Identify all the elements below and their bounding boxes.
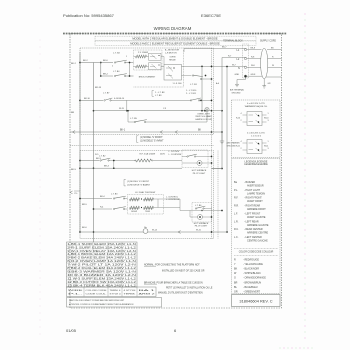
section separator (70, 145, 214, 147)
svg-text:L.T. B4: L.T. B4 (113, 71, 120, 73)
svg-text:01/05: 01/05 (66, 328, 77, 333)
svg-text:1 - L.T. B8: 1 - L.T. B8 (155, 92, 165, 94)
L1 feeder (184, 48, 246, 50)
cord-to-edge leads (267, 49, 282, 51)
svg-text:PETIT LE PAVILLET D INSTALLATI: PETIT LE PAVILLET D INSTALLATION OU LE (166, 287, 213, 290)
svg-text:2 R-1 SURF ELEM 15A 240V L1-L2: 2 R-1 SURF ELEM 15A 240V L1-L2 (67, 246, 137, 249)
pilot light 1 (197, 161, 202, 166)
svg-text:L. CONTROL: L. CONTROL (166, 196, 179, 198)
svg-text:LAMPE TEMOIN: LAMPE TEMOIN (247, 192, 265, 195)
bus BK (79, 52, 81, 232)
svg-text:NORMAL: FOR CONNECTING THE PLA: NORMAL: FOR CONNECTING THE PLATFORM NOT (144, 264, 200, 267)
link between rows (129, 63, 131, 77)
terminal N (244, 66, 246, 68)
svg-text:- BROWN/BRUN: - BROWN/BRUN (243, 281, 261, 284)
svg-text:P.L.: P.L. (68, 293, 84, 295)
cutoff switch (187, 156, 188, 157)
svg-text:WARMER/PLAQUE CH.: WARMER/PLAQUE CH. (245, 105, 268, 108)
svg-text:P.L.: P.L. (75, 193, 79, 195)
svg-text:TERMINAL BLOCK: TERMINAL BLOCK (223, 39, 243, 42)
hot surface box 2 (192, 203, 212, 223)
bus R (93, 63, 95, 243)
svg-text:A/B CHASSIS: A/B CHASSIS (227, 142, 241, 145)
warmer relay 2 (247, 140, 262, 154)
oven lamp (205, 107, 209, 111)
svg-text:5 BK-2 BAKE ELEM 14A 240V L1-L: 5 BK-2 BAKE ELEM 14A 240V L1-L2 (67, 257, 137, 260)
svg-text:L.T. B7: L.T. B7 (103, 93, 110, 95)
terminal GND (244, 75, 246, 77)
svg-text:9 BK-3 WARMER 5A 120V L1-N: 9 BK-3 WARMER 5A 120V L1-N (67, 271, 136, 274)
surface feed wires (80, 160, 99, 162)
svg-text:L.F. DUAL 750/2200W: L.F. DUAL 750/2200W (135, 191, 155, 194)
caution box (67, 298, 162, 308)
svg-text:GR: GR (234, 291, 238, 294)
second dashed edge lower (217, 151, 219, 239)
svg-text:1: 1 (268, 113, 269, 115)
svg-text:R.F. 4.5A 1200W: R.F. 4.5A 1200W (140, 152, 156, 155)
svg-text:AVANT GAUCHE: AVANT GAUCHE (247, 216, 266, 219)
feeder to lower section (226, 67, 228, 233)
terminal L1 (244, 48, 246, 50)
svg-text:RELAY: RELAY (169, 59, 176, 62)
svg-text:PILOT LIGHT: PILOT LIGHT (193, 173, 206, 175)
svg-text:BK-2: BK-2 (71, 63, 77, 65)
svg-text:R: R (234, 258, 236, 261)
junction dots (79, 62, 81, 64)
terminal L2 (244, 57, 246, 59)
svg-text:ARRIERE DROIT: ARRIERE DROIT (247, 208, 266, 211)
hot surface box 1 (182, 150, 208, 168)
svg-text:R.C.: R.C. (234, 228, 239, 231)
dual switch feeds (80, 198, 112, 200)
svg-text:W-14: W-14 (152, 229, 158, 231)
svg-text:BK-5: BK-5 (71, 169, 77, 171)
svg-text:1 BK-1 SURF ELEM 15A 120V L1-N: 1 BK-1 SURF ELEM 15A 120V L1-N (67, 243, 136, 246)
svg-text:750W: 750W (145, 211, 150, 213)
svg-text:(1) MODELE 'S' AVANT: (1) MODELE 'S' AVANT (127, 183, 151, 186)
terminal block outline (243, 44, 249, 78)
model line 1 (95, 36, 256, 40)
pilot light 2 (198, 215, 203, 220)
svg-text:L.T. B6: L.T. B6 (195, 205, 202, 207)
oven light switch (134, 121, 135, 122)
svg-text:LEGENDE/LEGENDE: LEGENDE/LEGENDE (244, 163, 268, 166)
svg-text:BA 1: BA 1 (139, 289, 158, 292)
svg-text:E36EC75E: E36EC75E (201, 13, 221, 18)
scan dots (decorative) (40, 40, 41, 41)
oven relay box (164, 65, 182, 81)
svg-text:1450W: 1450W (131, 211, 137, 213)
row y100 switch (80, 99, 103, 101)
svg-text:N: N (238, 67, 240, 70)
broil element E2 (136, 65, 147, 68)
svg-text:BK: BK (234, 268, 238, 271)
svg-text:ARRIERE CENTRE: ARRIERE CENTRE (247, 232, 269, 235)
part number box (232, 295, 281, 307)
svg-text:7 W-2 PILOT LT 1A 120V L2-N: 7 W-2 PILOT LT 1A 120V L2-N (67, 264, 136, 267)
svg-text:4-10 BK-10: 4-10 BK-10 (114, 98, 125, 100)
svg-text:1 - L.T. B10: 1 - L.T. B10 (186, 90, 197, 92)
dual switch a (113, 198, 114, 199)
svg-text:GND: GND (235, 74, 240, 76)
svg-text:BK-1: BK-1 (120, 130, 126, 132)
svg-text:4 x 40 120V 2.4 TD: 4 x 40 120V 2.4 TD (247, 103, 265, 105)
L2 feeder (222, 57, 246, 59)
svg-text:L.F.: L.F. (234, 212, 238, 215)
model line 2 (95, 41, 256, 45)
svg-text:COLOR CODE: COLOR CODE (86, 290, 108, 292)
svg-text:CODE COUL.: CODE COUL. (86, 293, 108, 295)
dual coil A2 (144, 198, 154, 201)
svg-text:MODEL WITH 2 REGULAR ELEMENT &: MODEL WITH 2 REGULAR ELEMENT & DOUBLE EL… (132, 37, 218, 41)
svg-text:BROIL ELEMENT: BROIL ELEMENT (139, 77, 156, 79)
outer dashed frame (70, 34, 282, 309)
table footer strip (67, 287, 157, 297)
bottom wire (80, 231, 212, 233)
svg-text:8 BR-2 DUAL ELEM 11A 240V L1-L: 8 BR-2 DUAL ELEM 11A 240V L1-L2 (67, 267, 137, 270)
svg-text:L-R MOTOR: L-R MOTOR (165, 53, 177, 55)
svg-text:3 W-1 OVEN RELAY 10A 120V L2-N: 3 W-1 OVEN RELAY 10A 120V L2-N (67, 250, 136, 253)
svg-text:CENTRE GAUCHE: CENTRE GAUCHE (247, 239, 268, 242)
inner right dashed edge (211, 48, 213, 239)
svg-text:W: W (272, 65, 274, 67)
svg-text:BR-18: BR-18 (95, 87, 102, 89)
element link to relay (147, 56, 149, 58)
upper schematic enclosure (80, 48, 214, 135)
svg-text:L.R.: L.R. (234, 220, 239, 223)
svg-text:11 W-3 SURF ELEM 13A 240V L1-L: 11 W-3 SURF ELEM 13A 240V L1-L2 (67, 277, 137, 280)
svg-text:BRANCHE: POUR BRANCHER LA TABL: BRANCHE: POUR BRANCHER LA TABLE DE CUISS… (144, 281, 203, 284)
svg-text:L.T. B3: L.T. B3 (111, 194, 118, 196)
svg-text:A/R TERMINAL: A/R TERMINAL (230, 89, 245, 92)
svg-text:- BLACK/NOIR: - BLACK/NOIR (243, 268, 259, 271)
svg-text:2: 2 (240, 120, 241, 122)
svg-text:- RED/ROUGE: - RED/ROUGE (243, 258, 259, 261)
svg-text:1: 1 (126, 56, 127, 58)
svg-text:TERM.: TERM. (124, 293, 137, 295)
svg-text:LAMPE DU FOUR: LAMPE DU FOUR (195, 118, 212, 121)
svg-text:L.T. B9: L.T. B9 (155, 95, 162, 97)
svg-text:4 x 40 120V 2.4 TD: 4 x 40 120V 2.4 TD (247, 132, 265, 134)
svg-text:4: 4 (240, 141, 241, 143)
svg-text:GROUND: GROUND (232, 92, 241, 94)
svg-text:W-10: W-10 (264, 118, 268, 120)
terminal ground branch (245, 77, 247, 79)
svg-text:MODELS AVEC 2 ELEMENT REGULIER: MODELS AVEC 2 ELEMENT REGULIER ET ELEMEN… (130, 42, 220, 46)
dual element box (128, 195, 164, 215)
svg-text:2: 2 (112, 66, 113, 68)
svg-text:P.L.: P.L. (234, 189, 238, 192)
warmer box (232, 100, 281, 158)
supply cord ellipse (261, 48, 268, 78)
svg-text:6 R-2 OVEN LAMP 1A 120V L1-N: 6 R-2 OVEN LAMP 1A 120V L1-N (67, 260, 136, 263)
svg-text:CAUTION: DISCONNECT POWER BEFO: CAUTION: DISCONNECT POWER BEFORE SERVICI… (69, 299, 125, 302)
svg-text:10 R-3 BUZZER 1A 120V L2-N: 10 R-3 BUZZER 1A 120V L2-N (67, 274, 136, 277)
broil element box (134, 50, 163, 70)
svg-text:1: 1 (268, 141, 269, 143)
svg-text:4 STYLE: 4 STYLE (124, 290, 137, 292)
element relay r1 (149, 53, 162, 60)
svg-text:ARM 2: ARM 2 (139, 292, 157, 295)
svg-text:240V: 240V (160, 153, 165, 155)
svg-text:SWITCH & LAMP: SWITCH & LAMP (195, 115, 212, 118)
svg-text:1 2 3 4 5 6: 1 2 3 4 5 6 (251, 135, 262, 137)
svg-text:L. CONTROLE: L. CONTROLE (166, 199, 180, 201)
svg-text:SUPPLY CORD: SUPPLY CORD (260, 40, 276, 42)
svg-text:- GREEN/VERT: - GREEN/VERT (243, 291, 260, 294)
svg-text:TERM. 4: TERM. 4 (110, 290, 122, 292)
svg-text:L.T. B1: L.T. B1 (190, 84, 198, 86)
svg-text:AVANT DROIT: AVANT DROIT (247, 200, 263, 203)
PL arrow (70, 191, 73, 194)
dual coil A1 (130, 198, 140, 201)
broil switch S2 (114, 75, 115, 76)
chassis ground (212, 131, 223, 133)
svg-text:BK-10: BK-10 (84, 98, 91, 100)
svg-text:(1) MODEL 'S' FRONT: (1) MODEL 'S' FRONT (140, 137, 163, 139)
svg-text:BK: BK (198, 130, 202, 132)
svg-text:W-15: W-15 (119, 108, 125, 110)
svg-text:L. CUTOFF: L. CUTOFF (169, 151, 180, 153)
svg-text:(1) MODELE 'S' AVANT: (1) MODELE 'S' AVANT (140, 140, 164, 143)
svg-text:L.T. B5: L.T. B5 (130, 118, 138, 120)
svg-text:STYLE 4: STYLE 4 (110, 293, 122, 295)
svg-text:ATTENTION: COUPER LE COURANT A: ATTENTION: COUPER LE COURANT AVANT D'EFF… (69, 303, 134, 306)
svg-text:3: 3 (268, 120, 269, 122)
bus link (100, 63, 102, 77)
N feeder (202, 65, 246, 67)
svg-text:PILOT LIGHT: PILOT LIGHT (195, 226, 208, 228)
legend box (232, 159, 281, 294)
color code header (234, 247, 278, 249)
svg-text:BR-5: BR-5 (82, 204, 88, 206)
svg-text:MANUEL D'UTILISATION ET D'ENTR: MANUEL D'UTILISATION ET D'ENTRETIEN (158, 292, 203, 295)
svg-text:HOT SURFACE: HOT SURFACE (192, 169, 207, 172)
dual coil B2 (144, 206, 154, 209)
svg-text:- WHITE/BLANC: - WHITE/BLANC (243, 272, 261, 275)
svg-text:R.R.: R.R. (234, 205, 239, 208)
svg-text:A - BK MOTOR: A - BK MOTOR (165, 49, 180, 52)
svg-text:INSTALLED ON NEXT OF 230 CASE: INSTALLED ON NEXT OF 230 CASE GR (162, 269, 205, 272)
svg-text:Publication No: 5995435867: Publication No: 5995435867 (63, 13, 115, 18)
svg-text:4: 4 (240, 113, 241, 115)
svg-text:12 BR-3 CUTOFF SW 10A 240V L1-: 12 BR-3 CUTOFF SW 10A 240V L1-L2 (67, 281, 137, 284)
svg-text:3: 3 (268, 148, 269, 150)
svg-text:L.T. B2: L.T. B2 (99, 156, 106, 158)
svg-text:R-11: R-11 (236, 146, 240, 148)
svg-text:OVEN LIGHT: OVEN LIGHT (197, 113, 210, 115)
wire row y110 (94, 110, 212, 112)
svg-text:HOT SURFACE: HOT SURFACE (194, 222, 209, 225)
warmer relay 1 (247, 112, 262, 126)
svg-text:BR-3: BR-3 (104, 166, 110, 168)
svg-text:OVEN: OVEN (170, 57, 176, 59)
svg-text:2: 2 (240, 148, 241, 150)
block-to-cord leads (247, 49, 262, 51)
svg-text:WIRING DIAGRAM: WIRING DIAGRAM (154, 26, 192, 31)
element relay r2 (149, 63, 162, 70)
svg-text:318046604 REV. C: 318046604 REV. C (239, 298, 272, 303)
svg-text:1 L.F. 360: 1 L.F. 360 (173, 83, 183, 85)
broil element E1 (136, 55, 147, 58)
svg-text:(1) MODEL 'S' FRONT: (1) MODEL 'S' FRONT (127, 181, 150, 183)
svg-text:- ORANGE/ORANGE: - ORANGE/ORANGE (243, 277, 266, 280)
svg-text:4 BR-1 BROIL ELEM 12A 240V L1-: 4 BR-1 BROIL ELEM 12A 240V L1-L2 (67, 253, 137, 256)
relay output wire (182, 65, 203, 67)
wire BR-2 (101, 75, 113, 77)
wiring table (67, 242, 138, 287)
bake switch S3 (192, 75, 193, 76)
svg-text:AVERTISSEUR: AVERTISSEUR (247, 185, 264, 188)
svg-text:COLOR CODE/CODE COULEUR: COLOR CODE/CODE COULEUR (239, 251, 274, 253)
svg-text:W-15: W-15 (196, 229, 202, 231)
svg-text:- BLUE/BLEU: - BLUE/BLEU (243, 286, 258, 289)
svg-text:BR: BR (71, 112, 74, 114)
dual coil B1 (130, 206, 140, 209)
svg-text:R-10: R-10 (236, 118, 240, 120)
buzzer (143, 229, 148, 234)
switch on row y100 (190, 100, 191, 101)
svg-text:2 - L.T. B11: 2 - L.T. B11 (186, 93, 197, 95)
svg-text:BR: BR (234, 281, 238, 284)
svg-text:ARRIERE GAUCHE: ARRIERE GAUCHE (247, 224, 269, 227)
oven feed wire (80, 62, 113, 64)
svg-text:- YELLOW/JAUNE: - YELLOW/JAUNE (243, 263, 263, 266)
svg-text:BR-2: BR-2 (103, 73, 109, 75)
svg-text:WIRE: WIRE (68, 290, 84, 292)
svg-text:L.C.: L.C. (234, 236, 239, 239)
element exit wires (164, 198, 181, 200)
main feed wire y132 (70, 131, 212, 133)
broil switch S1 (114, 62, 115, 63)
svg-text:O: O (234, 277, 236, 280)
svg-text:L.T. B2: L.T. B2 (113, 53, 121, 55)
svg-text:L. COUPURE: L. COUPURE (169, 154, 182, 156)
RF switch (100, 160, 101, 161)
heavy dashed rule (63, 33, 287, 35)
svg-text:2 X 1200W: 2 X 1200W (138, 52, 148, 54)
lower schematic enclosure (80, 151, 214, 239)
relay cluster dashed bounds (134, 86, 184, 88)
cord ground (263, 79, 265, 84)
dual switch b (113, 208, 114, 209)
svg-text:W-11: W-11 (264, 146, 268, 148)
svg-text:R.F.: R.F. (234, 197, 239, 200)
